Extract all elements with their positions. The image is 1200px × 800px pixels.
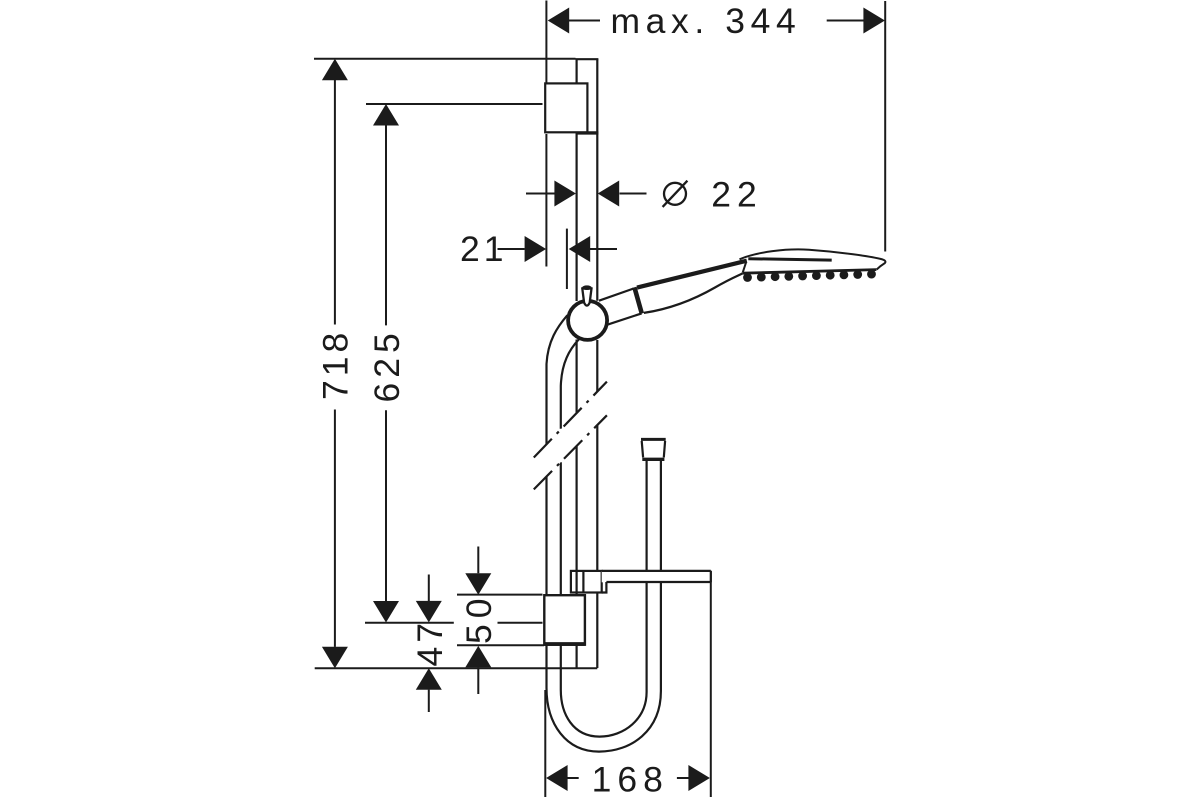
svg-text:47: 47 bbox=[410, 619, 450, 667]
svg-text:21: 21 bbox=[460, 229, 508, 269]
svg-text:625: 625 bbox=[367, 328, 407, 402]
svg-text:22: 22 bbox=[711, 175, 763, 215]
svg-text:50: 50 bbox=[459, 593, 499, 645]
svg-text:168: 168 bbox=[592, 760, 669, 800]
svg-text:718: 718 bbox=[316, 329, 356, 400]
svg-text:max. 344: max. 344 bbox=[611, 1, 802, 41]
